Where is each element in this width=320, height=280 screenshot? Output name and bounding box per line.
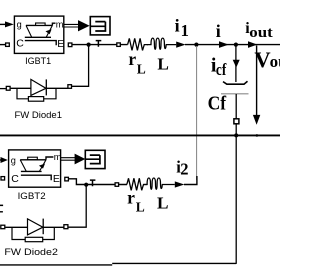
g2 input arrow: [0, 157, 8, 163]
thick arrow m1 to scope1: [64, 20, 89, 31]
resistor r_L 1: [128, 38, 148, 50]
IGBT2: [9, 150, 62, 187]
i_cf arrowhead: [233, 60, 240, 68]
thick arrow m2 to scope2: [61, 154, 85, 165]
FW Diode2: [1, 219, 68, 242]
C1 input port: [0, 43, 9, 46]
wire corner up: [184, 176, 197, 185]
svg-text:1: 1: [181, 21, 189, 40]
svg-text:out: out: [249, 25, 272, 41]
T tap 2: [90, 180, 96, 186]
capacitor lower wire: [235, 94, 237, 119]
svg-text:2: 2: [180, 160, 188, 179]
node 1: [194, 43, 198, 47]
svg-text:C: C: [11, 173, 19, 185]
E1 port square: [68, 43, 72, 47]
svg-text:IGBT1: IGBT1: [25, 56, 51, 66]
rail node Cf: [234, 133, 238, 137]
svg-text:E: E: [53, 173, 60, 185]
svg-text:r: r: [127, 187, 135, 207]
wire square to rail: [235, 124, 237, 136]
svg-text:m: m: [54, 152, 62, 162]
svg-text:g: g: [11, 155, 16, 165]
wire to right edge: [185, 44, 280, 46]
rail node Vout: [256, 134, 259, 137]
i1 arrow: [176, 42, 185, 48]
svg-text:V: V: [254, 47, 270, 72]
svg-text:FW Diode2: FW Diode2: [4, 247, 58, 257]
svg-text:L: L: [157, 55, 169, 74]
FW Diode1: [0, 79, 72, 101]
resistor r_L 2: [127, 178, 147, 190]
svg-text:cf: cf: [216, 60, 227, 79]
svg-text:C: C: [16, 38, 24, 50]
E2 port square: [65, 177, 69, 181]
wire E1 to resistor: [72, 44, 127, 46]
rail wire: [0, 134, 280, 136]
V_out arrow line: [256, 46, 258, 117]
svg-text:Cf: Cf: [208, 93, 227, 115]
g1 input arrow: [0, 21, 14, 27]
svg-text:i: i: [175, 16, 180, 36]
mid square 1: [117, 43, 121, 47]
scope2: [85, 150, 105, 168]
wire E2 jog: [68, 179, 127, 185]
C2 input port: [1, 177, 5, 180]
mid square 2: [115, 183, 119, 187]
i_cf branch wire: [235, 45, 237, 82]
svg-text:i: i: [216, 21, 221, 41]
capacitor Cf bottom plate: [221, 93, 249, 95]
scope1: [90, 17, 110, 35]
svg-text:L: L: [157, 194, 169, 213]
svg-text:E: E: [57, 38, 64, 50]
svg-text:m: m: [56, 20, 64, 30]
IGBT1: [14, 16, 64, 53]
inductor L 1: [147, 38, 176, 49]
node to FW Diode1: [87, 43, 91, 47]
node 2: [234, 43, 238, 47]
svg-text:g: g: [17, 19, 22, 29]
inductor L 2: [144, 178, 175, 189]
cropped element left edge: [0, 205, 3, 207]
port square below Cf: [234, 119, 239, 124]
svg-text:L: L: [136, 200, 145, 215]
bottom enclosure lines: [0, 264, 112, 266]
node to FW Diode2: [84, 183, 88, 187]
right enclosure vertical: [235, 135, 237, 264]
svg-text:L: L: [137, 61, 146, 76]
i2 arrow: [175, 181, 185, 187]
svg-text:FW Diode1: FW Diode1: [15, 110, 63, 120]
svg-text:out: out: [270, 52, 280, 71]
svg-text:r: r: [128, 49, 136, 69]
gray vertical wire: [196, 46, 198, 180]
i_out arrow: [248, 41, 257, 48]
i arrow: [219, 41, 229, 48]
svg-text:IGBT2: IGBT2: [18, 191, 46, 201]
T tap 1: [96, 41, 102, 47]
capacitor Cf top plate: [223, 81, 248, 84]
